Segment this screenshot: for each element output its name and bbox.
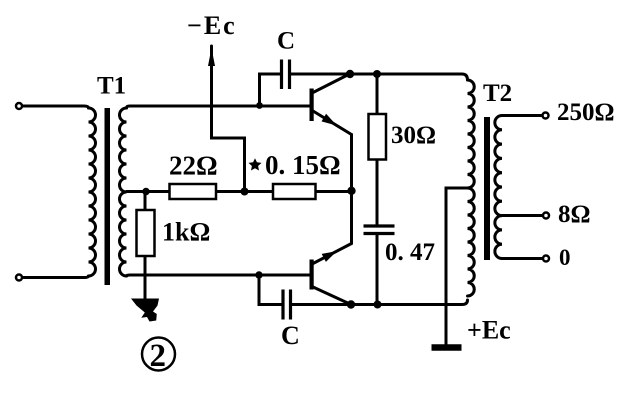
svg-text:C: C — [281, 321, 300, 350]
svg-text:22Ω: 22Ω — [169, 151, 218, 181]
svg-text:−Ec: −Ec — [187, 11, 237, 40]
svg-text:2: 2 — [150, 338, 167, 374]
svg-text:1kΩ: 1kΩ — [162, 218, 210, 247]
svg-text:30Ω: 30Ω — [391, 122, 436, 149]
svg-text:0. 15Ω: 0. 15Ω — [265, 150, 341, 180]
svg-text:+Ec: +Ec — [467, 316, 511, 345]
svg-text:250Ω: 250Ω — [557, 99, 615, 126]
svg-text:0. 47: 0. 47 — [385, 239, 435, 266]
svg-text:T2: T2 — [483, 80, 512, 107]
svg-text:8Ω: 8Ω — [558, 201, 591, 228]
svg-text:0: 0 — [559, 245, 571, 270]
svg-text:T1: T1 — [97, 73, 126, 100]
svg-text:C: C — [277, 28, 295, 55]
